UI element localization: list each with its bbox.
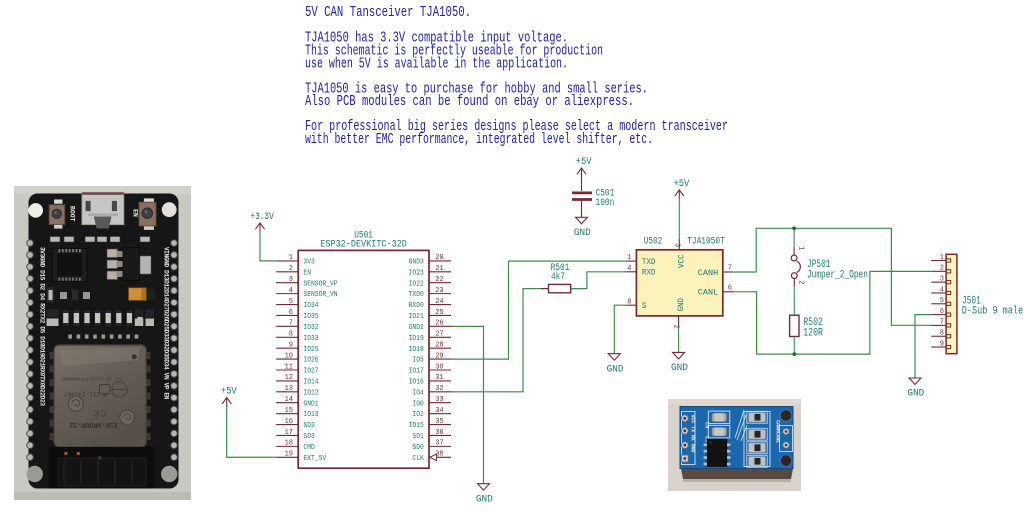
svg-text:TXD0: TXD0 (409, 291, 425, 299)
ground below S pin (607, 354, 624, 376)
svg-text:3: 3 (673, 243, 681, 247)
svg-text:K: K (98, 454, 101, 460)
svg-text:IO34: IO34 (303, 302, 319, 310)
wire +5V to U501 pin 19 EXT_5V (227, 404, 277, 457)
svg-text:EN: EN (132, 209, 139, 217)
junction on CANH wire at JP501 (792, 226, 796, 230)
svg-text:IO27: IO27 (303, 368, 319, 376)
svg-text:U502: U502 (644, 237, 663, 248)
svg-text:+5V: +5V (221, 386, 237, 398)
svg-text:6: 6 (289, 309, 293, 317)
svg-text:SD3: SD3 (303, 433, 315, 441)
svg-text:3V3: 3V3 (303, 259, 315, 267)
svg-text:BOOT: BOOT (68, 206, 75, 222)
svg-text:+3.3V: +3.3V (250, 211, 274, 223)
svg-text:8: 8 (627, 298, 631, 306)
photo of ESP32 DevKitC board (14, 186, 191, 500)
svg-text:GND: GND (907, 388, 924, 400)
U502 pin 2 GND bottom (672, 298, 686, 329)
IC U502 TJA1050T body (636, 237, 724, 316)
connector J501 D-Sub 9 male (931, 254, 1023, 354)
svg-text:CANH: CANH (698, 268, 719, 278)
svg-text:RXD: RXD (642, 268, 656, 278)
svg-text:IO18: IO18 (409, 346, 425, 354)
svg-text:IO4: IO4 (412, 389, 424, 397)
svg-text:SENSOR_VN: SENSOR_VN (303, 291, 337, 299)
wire JP501 pin2 to R502 (793, 286, 795, 315)
svg-text:30: 30 (435, 363, 443, 371)
svg-text:28: 28 (435, 341, 443, 349)
svg-text:C5: C5 (704, 422, 710, 428)
svg-text:IO13: IO13 (303, 411, 319, 419)
svg-text:21: 21 (435, 265, 443, 273)
svg-text:ESP32-DEVKITC-32D: ESP32-DEVKITC-32D (320, 239, 407, 250)
board pin headers and labels (27, 240, 178, 461)
svg-text:29: 29 (435, 352, 443, 360)
U502 pin 7 CANH (698, 265, 734, 278)
svg-text:7: 7 (940, 319, 944, 327)
svg-text:GND: GND (671, 362, 688, 374)
svg-text:SD0: SD0 (412, 444, 424, 452)
svg-text:19: 19 (285, 451, 293, 459)
svg-text:IO21: IO21 (409, 313, 425, 321)
svg-text:1: 1 (627, 254, 631, 262)
svg-text:4: 4 (940, 286, 944, 294)
wire +3.3V to U501 pin 1 (260, 229, 276, 261)
svg-text:ESP-WROOM-32: ESP-WROOM-32 (69, 420, 117, 428)
wire +5V to U502 VCC (678, 196, 680, 239)
wire CANH: U502 pin7 up and across to J501 pin 7 (734, 228, 931, 325)
svg-text:35: 35 (435, 418, 443, 426)
svg-text:14: 14 (285, 396, 293, 404)
wire U502 S pin to ground (614, 305, 625, 354)
svg-text:SD2: SD2 (303, 422, 315, 430)
svg-text:211-141007: 211-141007 (64, 391, 100, 398)
svg-text:7: 7 (289, 320, 293, 328)
svg-text:18: 18 (285, 440, 293, 448)
svg-text:IO19: IO19 (409, 335, 425, 343)
svg-text:17: 17 (285, 429, 293, 437)
svg-text:2: 2 (289, 265, 293, 273)
svg-text:36: 36 (435, 429, 443, 437)
svg-text:IO15: IO15 (409, 422, 425, 430)
svg-text:use when 5V is available in th: use when 5V is available in the applicat… (305, 55, 568, 73)
svg-text:1: 1 (940, 254, 944, 262)
svg-text:5: 5 (289, 298, 293, 306)
svg-text:3: 3 (289, 276, 293, 284)
svg-text:IO32: IO32 (303, 324, 319, 332)
svg-text:10: 10 (285, 352, 293, 360)
svg-text:IO5: IO5 (412, 357, 424, 365)
svg-text:IO14: IO14 (303, 379, 319, 387)
svg-text:25: 25 (435, 309, 443, 317)
svg-text:GND: GND (574, 227, 591, 239)
wire CANL: U502 pin6 down and across to J501 pin 2 (734, 271, 931, 354)
svg-text:3: 3 (940, 275, 944, 283)
power symbol +3.3V (250, 211, 274, 232)
svg-text:13: 13 (285, 385, 293, 393)
svg-text:IO2: IO2 (412, 411, 424, 419)
power symbol +5V left (221, 386, 237, 407)
wire U501 pin 26 GND2 down to ground (451, 326, 484, 483)
svg-text:IO26: IO26 (303, 357, 319, 365)
U502 pin 1 TXD (625, 254, 655, 267)
U502 pin 8 S (625, 298, 646, 311)
svg-text:9: 9 (289, 341, 293, 349)
svg-text:IO17: IO17 (409, 368, 425, 376)
U502 pin 4 RXD (625, 265, 655, 278)
svg-text:IO22: IO22 (409, 280, 425, 288)
svg-text:26: 26 (435, 320, 443, 328)
svg-text:1: 1 (797, 246, 805, 250)
svg-text:7: 7 (728, 265, 732, 273)
svg-text:5V CAN Tansceiver TJA1050.: 5V CAN Tansceiver TJA1050. (305, 3, 471, 21)
svg-text:TXD: TXD (642, 257, 656, 267)
svg-text:IO35: IO35 (303, 313, 319, 321)
svg-text:GND2: GND2 (409, 324, 425, 332)
jumper JP501 Jumper_2_Open (791, 228, 868, 286)
svg-text:IO12: IO12 (303, 389, 319, 397)
svg-text:VCC TX RX GND: VCC TX RX GND (690, 415, 696, 453)
board middle components (47, 237, 156, 344)
svg-text:6: 6 (728, 285, 732, 293)
wire R501 to U502 RXD (571, 272, 626, 289)
IC U501 ESP32-DEVKITC-32D module body (298, 231, 429, 469)
svg-text:S: S (642, 301, 647, 311)
power symbol +5V at C501 (576, 156, 592, 177)
svg-text:120R: 120R (803, 327, 823, 339)
ground below U502 (671, 352, 688, 374)
svg-text:32: 32 (435, 385, 443, 393)
svg-text:8: 8 (289, 331, 293, 339)
wire U501 pin 32 IO4 to R501 (451, 289, 549, 392)
svg-text:20: 20 (435, 254, 443, 262)
svg-text:3V3GND D15 D2 D4 RX2TX2 D5 D18: 3V3GND D15 D2 D4 RX2TX2 D5 D18D19D21RX0T… (39, 247, 46, 406)
svg-text:FCC ID:2AC7Z-ESPWROOM32: FCC ID:2AC7Z-ESPWROOM32 (61, 376, 122, 382)
svg-text:SENSOR_VP: SENSOR_VP (303, 280, 338, 288)
svg-text:33: 33 (435, 396, 443, 404)
svg-text:4k7: 4k7 (551, 271, 565, 283)
U501 pin 38 CLK inverted-clock marker (430, 454, 437, 461)
svg-text:37: 37 (435, 440, 443, 448)
svg-text:4: 4 (289, 287, 293, 295)
svg-text:31: 31 (435, 374, 443, 382)
svg-text:GND: GND (607, 363, 624, 375)
svg-text:GND: GND (676, 298, 686, 312)
svg-text:34: 34 (435, 407, 443, 415)
svg-text:IO23: IO23 (409, 269, 425, 277)
board RF shield ESP-WROOM-32 (50, 345, 151, 448)
resistor R502 120R (790, 315, 824, 339)
svg-text:5: 5 (940, 297, 944, 305)
svg-text:with better EMC performance, i: with better EMC performance, integrated … (305, 130, 653, 148)
U501 right pins 20-38 with numbers and names (409, 254, 451, 463)
svg-text:23: 23 (435, 287, 443, 295)
svg-text:RXD0: RXD0 (409, 302, 425, 310)
svg-text:D-Sub 9 male: D-Sub 9 male (962, 306, 1023, 318)
svg-text:100n: 100n (596, 198, 615, 209)
svg-text:IO33: IO33 (303, 335, 319, 343)
svg-text:CLK: CLK (412, 455, 424, 463)
svg-text:8: 8 (940, 330, 944, 338)
wire U502 GND pin down (678, 327, 680, 353)
svg-text:6: 6 (940, 308, 944, 316)
svg-text:11: 11 (285, 363, 293, 371)
svg-text:C€: C€ (94, 406, 107, 418)
ground below U501 (476, 484, 493, 506)
svg-text:9: 9 (940, 340, 944, 348)
svg-text:1: 1 (289, 254, 293, 262)
svg-text:+5V: +5V (576, 156, 592, 168)
svg-text:Jumper_2_Open: Jumper_2_Open (807, 269, 868, 281)
ground below J501 (907, 378, 924, 400)
svg-text:IO0: IO0 (412, 400, 424, 408)
svg-text:2: 2 (797, 280, 805, 284)
svg-text:24: 24 (435, 298, 443, 306)
board antenna area (49, 447, 154, 488)
svg-text:2: 2 (940, 265, 944, 273)
capacitor C501 100n (572, 174, 614, 217)
wire U501 pin 29 IO5 to U502 TXD (451, 261, 625, 359)
svg-text:+5V: +5V (674, 178, 690, 190)
svg-text:27: 27 (435, 331, 443, 339)
wire J501 pin 6 to ground (915, 315, 931, 378)
svg-text:15: 15 (285, 407, 293, 415)
svg-text:VINGND D13D12D14D27D26D25D33D3: VINGND D13D12D14D27D26D25D33D32D35D34 VN… (162, 247, 169, 400)
svg-text:GND: GND (476, 493, 493, 505)
svg-text:GND1: GND1 (303, 400, 319, 408)
note text block (305, 3, 728, 148)
svg-text:16: 16 (285, 418, 293, 426)
U501 left pins 1-19 with numbers and names (276, 254, 338, 463)
svg-text:EN: EN (303, 269, 311, 277)
svg-text:EXT_5V: EXT_5V (303, 455, 326, 463)
resistor R501 4k7 (541, 263, 578, 293)
svg-text:GND3: GND3 (409, 259, 425, 267)
ground below C501 (574, 217, 591, 239)
U502 pin 6 CANL (698, 285, 734, 298)
photo of TJA1050 module PCB (668, 399, 801, 491)
svg-text:IO16: IO16 (409, 379, 425, 387)
svg-text:IO25: IO25 (303, 346, 319, 354)
svg-text:22: 22 (435, 276, 443, 284)
svg-text:12: 12 (285, 374, 293, 382)
svg-text:4: 4 (627, 265, 631, 273)
junction on CANL wire at R502 (792, 352, 796, 356)
svg-text:R: R (103, 390, 107, 397)
U502 pin 3 VCC top (673, 239, 687, 268)
svg-text:VCC: VCC (677, 255, 687, 269)
svg-text:SD1: SD1 (412, 433, 424, 441)
svg-text:CMD: CMD (303, 444, 315, 452)
svg-text:Also PCB modules can be found: Also PCB modules can be found on ebay or… (305, 92, 634, 110)
svg-text:CANL: CANL (698, 288, 719, 298)
power symbol +5V above U502 (674, 178, 690, 199)
svg-text:TJA1050T: TJA1050T (687, 237, 725, 248)
wire R502 to CANL bus (793, 337, 795, 355)
